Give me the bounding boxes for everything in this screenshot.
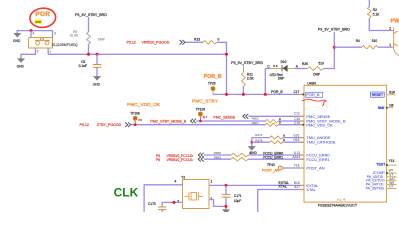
svg-text:Y2: Y2 bbox=[181, 176, 185, 180]
off-page connectors << for FCCU bbox=[198, 153, 204, 162]
transistor Q (clipped at right edge) bbox=[392, 28, 399, 56]
wire C171 column bbox=[225, 185, 227, 194]
svg-text:10.0K: 10.0K bbox=[69, 34, 78, 38]
wire R2 bottom to Q pin 2 bbox=[369, 18, 392, 30]
pin connection dots (olive) bbox=[302, 93, 304, 95]
svg-text:STBY_PGOOD: STBY_PGOOD bbox=[97, 123, 122, 127]
svg-text:GND: GND bbox=[17, 64, 25, 68]
blue pin names (left side) bbox=[306, 92, 346, 192]
ground GND3 (below C8) bbox=[93, 77, 101, 87]
pin number labels of SW1 bbox=[32, 32, 56, 54]
node junction at pin 4 bbox=[30, 29, 33, 32]
svg-text:PMC_STBY_MODE_B: PMC_STBY_MODE_B bbox=[150, 120, 186, 124]
IC U43H body bbox=[304, 85, 387, 202]
wire XTAL row bbox=[258, 190, 304, 213]
testpoint TP108 bbox=[130, 112, 142, 125]
svg-text:R607: R607 bbox=[252, 121, 260, 125]
left pin numbers bbox=[293, 112, 301, 189]
node junction rail/vertical bbox=[225, 53, 228, 56]
svg-text:DNP: DNP bbox=[313, 73, 320, 77]
svg-text:FS32G274AABK1VUCT: FS32G274AABK1VUCT bbox=[318, 203, 358, 207]
ground GND5 (below C171, clipped) bbox=[222, 210, 229, 214]
svg-text:C170: C170 bbox=[148, 202, 156, 206]
annotation red ellipse around POR bbox=[29, 7, 56, 28]
svg-text:3: 3 bbox=[54, 32, 56, 36]
svg-text:5.1K: 5.1K bbox=[373, 12, 380, 16]
svg-text:DNP: DNP bbox=[98, 38, 106, 42]
resistor R276 0 bbox=[255, 138, 285, 144]
svg-text:P3_3V_STBY_BRD: P3_3V_STBY_BRD bbox=[231, 61, 263, 65]
svg-text:0: 0 bbox=[218, 38, 220, 42]
capacitor C8 0.1uF bbox=[79, 60, 102, 68]
wire main POR_B horizontal rail bbox=[48, 53, 226, 55]
svg-text:F18: F18 bbox=[294, 164, 300, 168]
resistor R659 0 bbox=[214, 151, 252, 157]
svg-text:FCCU_ERR1: FCCU_ERR1 bbox=[306, 157, 330, 162]
wire LED anode lead to R26 bbox=[288, 68, 296, 70]
svg-text:TP108: TP108 bbox=[130, 112, 140, 116]
resistor R607 0 bbox=[252, 121, 281, 127]
svg-text:0.1uF: 0.1uF bbox=[79, 64, 87, 68]
svg-text:NMI: NMI bbox=[378, 106, 385, 110]
svg-text:GND: GND bbox=[93, 83, 101, 87]
wire C8 stub bbox=[96, 54, 98, 64]
svg-text:POST_AN: POST_AN bbox=[262, 169, 280, 173]
wire R21 bottom to POR_B row bbox=[242, 86, 244, 94]
svg-text:v1.4: v1.4 bbox=[337, 197, 345, 201]
svg-text:VR5510_FCCU1: VR5510_FCCU1 bbox=[167, 158, 193, 162]
wire GND1 up and over to switch pins 4/3 bbox=[17, 31, 52, 38]
wire STBY_PGOOD row through R607 to pin C15 bbox=[131, 124, 266, 126]
LED D10 (LED Red, DNP) bbox=[267, 60, 287, 81]
svg-text:AA14: AA14 bbox=[293, 155, 301, 159]
svg-text:U7: U7 bbox=[389, 185, 393, 189]
svg-text:2: 2 bbox=[389, 27, 391, 31]
svg-text:D10: D10 bbox=[281, 60, 287, 64]
svg-text:C12: C12 bbox=[294, 112, 300, 116]
svg-text:U43H: U43H bbox=[307, 81, 316, 85]
wire C171 bottom / crystal pin2 bbox=[209, 200, 226, 207]
svg-text:510: 510 bbox=[372, 39, 378, 43]
resistor R13 0 bbox=[194, 38, 219, 44]
svg-text:XTAL: XTAL bbox=[279, 185, 287, 189]
svg-text:PMC_SENSE: PMC_SENSE bbox=[213, 116, 235, 120]
wire FCCU_ERR0 row through R659 bbox=[204, 154, 231, 156]
svg-text:P6: P6 bbox=[156, 158, 160, 162]
svg-text:TP40: TP40 bbox=[267, 163, 275, 167]
switch SW1 (EL1105MF160Q pushbutton) bbox=[29, 38, 53, 48]
svg-text:10µF: 10µF bbox=[234, 199, 241, 203]
svg-text:FCCU_ERR1: FCCU_ERR1 bbox=[263, 156, 283, 160]
svg-text:GND: GND bbox=[13, 39, 21, 43]
svg-text:DNP: DNP bbox=[278, 76, 285, 80]
svg-text:POR_B: POR_B bbox=[271, 90, 283, 94]
svg-text:POR_B: POR_B bbox=[204, 74, 222, 80]
svg-text:1: 1 bbox=[389, 43, 391, 47]
wire PMC_STBY_MODE_B row through R602 to pin C16 bbox=[196, 120, 265, 122]
svg-text:R663: R663 bbox=[214, 156, 222, 160]
svg-text:TP26: TP26 bbox=[208, 82, 216, 86]
svg-text:Y13: Y13 bbox=[389, 159, 395, 163]
svg-text:G6: G6 bbox=[389, 103, 393, 107]
resistor R21 2.0K (vertical pull-up) bbox=[242, 72, 255, 86]
svg-text:P6: P6 bbox=[138, 118, 142, 122]
ground GND1 (top-left of switch) bbox=[13, 33, 21, 42]
svg-text:4: 4 bbox=[32, 32, 34, 36]
svg-text:P6.12: P6.12 bbox=[80, 123, 89, 127]
svg-text:PMC_VDD_OK: PMC_VDD_OK bbox=[306, 122, 333, 127]
wire R9 bottom to rail bbox=[88, 44, 90, 54]
resistor R602 0 bbox=[252, 116, 281, 122]
off-page connector >> bbox=[180, 40, 186, 45]
svg-text:2: 2 bbox=[37, 50, 39, 54]
svg-text:1: 1 bbox=[49, 50, 51, 54]
wire gnd riser bbox=[251, 138, 253, 147]
crystal Y2 bbox=[175, 176, 213, 209]
svg-text:4: 4 bbox=[175, 180, 177, 184]
svg-text:G16: G16 bbox=[293, 133, 299, 137]
ground GND2 (below switch) bbox=[17, 59, 25, 69]
svg-text:4L7: 4L7 bbox=[202, 115, 207, 119]
annotation SW1 on yellow highlight bbox=[35, 19, 42, 23]
wire top supply into R2 bbox=[368, 0, 370, 7]
resistor R4 510 bbox=[356, 39, 378, 49]
node junction C171 top bbox=[225, 184, 228, 187]
wire C8 bottom to GND3 bbox=[96, 67, 98, 76]
resistor R26 510 DNP bbox=[302, 62, 324, 77]
wire R26 right, up to P3_3V junction bbox=[323, 32, 334, 69]
wire R13 to corner, down across rail to POR_B row bbox=[217, 42, 227, 94]
svg-text:POST_AN: POST_AN bbox=[306, 166, 324, 171]
wire from connector to R13 bbox=[186, 41, 204, 43]
wire power stub to R21 bbox=[242, 65, 244, 73]
svg-text:C17: C17 bbox=[294, 90, 300, 94]
node junction R9/rail bbox=[87, 53, 90, 56]
resistor R2 5.1K (vertical) bbox=[367, 7, 380, 18]
svg-text:A17: A17 bbox=[294, 185, 300, 189]
svg-text:EL1105MF160Q: EL1105MF160Q bbox=[52, 43, 78, 47]
svg-text:R276: R276 bbox=[255, 138, 263, 142]
svg-text:R26: R26 bbox=[302, 62, 308, 66]
svg-text:R602: R602 bbox=[252, 116, 260, 120]
wire junction to R4 bbox=[334, 46, 362, 48]
svg-text:PW: PW bbox=[391, 19, 399, 25]
annotation red squiggle under POR_B bbox=[302, 100, 326, 106]
svg-text:XTAL: XTAL bbox=[306, 187, 316, 192]
svg-text:PMC_STBY: PMC_STBY bbox=[192, 99, 218, 104]
wire TP40 to pin F18 bbox=[282, 167, 304, 169]
svg-text:2.0K: 2.0K bbox=[247, 76, 255, 80]
svg-text:R4: R4 bbox=[356, 39, 360, 43]
wire crystal pin1 to EXTAL row bbox=[209, 184, 304, 186]
left pin stubs bbox=[300, 94, 305, 189]
svg-text:RESET: RESET bbox=[372, 93, 384, 97]
svg-text:R13: R13 bbox=[194, 38, 200, 42]
svg-text:B16: B16 bbox=[389, 90, 395, 94]
svg-text:H16: H16 bbox=[294, 138, 300, 142]
RESET pin (highlight box) bbox=[371, 92, 385, 97]
svg-text:SW1: SW1 bbox=[35, 20, 42, 24]
JTAG pins bbox=[366, 171, 386, 190]
svg-text:P3_3V_STBY_BRD: P3_3V_STBY_BRD bbox=[75, 13, 107, 17]
wire LED cathode drop to POR_B row bbox=[264, 69, 266, 95]
capacitor C170 bbox=[148, 202, 166, 212]
testpoint TP109 bbox=[196, 108, 208, 121]
wire TMU_ANODE row bbox=[252, 137, 270, 139]
svg-text:P3_3V_STBY_BRD: P3_3V_STBY_BRD bbox=[318, 28, 350, 32]
wire POR_B row bbox=[213, 93, 304, 95]
node junction R21/POR_B bbox=[242, 93, 245, 96]
wire pin1 stub down to POR_B rail bbox=[47, 48, 49, 54]
wire crystal pin4 to left drop bbox=[144, 185, 182, 212]
svg-text:K K: K K bbox=[273, 64, 277, 68]
node junction C8/rail bbox=[96, 53, 99, 56]
svg-text:510: 510 bbox=[319, 62, 325, 66]
svg-text:PA_05/TMS: PA_05/TMS bbox=[366, 187, 385, 191]
testpoint TP40 bbox=[267, 163, 282, 170]
wire LED cathode horizontal + leads bbox=[265, 68, 270, 70]
node junction LED/POR_B bbox=[264, 93, 267, 96]
svg-text:VR5510_PGOOD: VR5510_PGOOD bbox=[142, 41, 170, 45]
node junction at x226.5 bbox=[225, 93, 228, 96]
wire pin4 stub bbox=[30, 31, 32, 38]
svg-text:R271: R271 bbox=[255, 133, 263, 137]
capacitor C171 10uF bbox=[222, 194, 242, 203]
svg-text:C15: C15 bbox=[294, 121, 300, 125]
blue highlight box around POR_B name bbox=[306, 92, 323, 97]
svg-text:POR: POR bbox=[35, 11, 50, 18]
svg-text:C171: C171 bbox=[234, 194, 242, 198]
svg-text:PMC_VDD_OK: PMC_VDD_OK bbox=[127, 102, 161, 107]
node junction R4 branch bbox=[333, 46, 336, 49]
svg-text:TP109: TP109 bbox=[196, 108, 206, 112]
wire FCCU_ERR1 row through R663 bbox=[204, 158, 231, 160]
svg-text:W7: W7 bbox=[389, 169, 394, 173]
svg-text:P6.12: P6.12 bbox=[127, 41, 136, 45]
wire TMU_CATHODE row bbox=[252, 141, 270, 143]
svg-text:TMU_CATHODE: TMU_CATHODE bbox=[306, 140, 335, 145]
wire power stub to R9 bbox=[88, 17, 90, 32]
testpoint TP26 bbox=[208, 82, 216, 95]
svg-text:CLK: CLK bbox=[114, 186, 139, 200]
svg-text:POR_B: POR_B bbox=[306, 92, 319, 97]
wire pin2 to GND2 bbox=[21, 48, 36, 59]
resistor R271 0 bbox=[255, 133, 285, 139]
svg-text:1: 1 bbox=[211, 180, 213, 184]
svg-text:TEST: TEST bbox=[376, 163, 386, 167]
resistor R9 10.0K DNP (vertical, grey) bbox=[69, 30, 105, 44]
resistor R663 0 bbox=[214, 156, 248, 161]
wire crystal pin3 to C170 bbox=[162, 202, 182, 206]
wire R4 to Q pin 1 bbox=[378, 46, 392, 48]
wire PMC_SENSE row to pin C12 bbox=[248, 115, 304, 117]
ground GND4 (TMU divider) bbox=[248, 147, 257, 155]
